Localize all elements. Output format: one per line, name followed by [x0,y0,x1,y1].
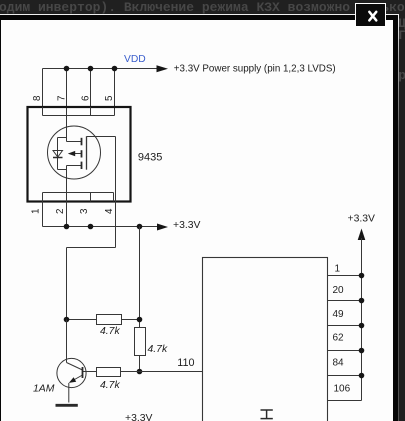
node A gate-collector junction [64,317,70,323]
wire right supply bus [361,238,363,401]
node bus pin84 [359,373,365,379]
power arrow +3.3V top [157,65,169,72]
wire pullup bus [139,227,141,328]
node bus pin1 [359,273,365,279]
node rail-pin5 junction [112,66,118,72]
svg-text:4: 4 [104,208,115,214]
node bus pin49 [359,323,365,329]
power arrow +3.3V right (up) [358,229,366,241]
wire pin 49 rung [328,325,362,327]
channel bar drain [81,138,83,146]
close button [355,3,386,27]
pin row top of U1 [43,115,115,117]
wire body diode branch [58,137,67,139]
svg-text:62: 62 [333,333,345,344]
wire source continues to bottom rail [66,166,68,227]
node rail-pin3 junction [88,224,94,230]
node rail-pin6 junction [88,66,94,72]
transistor U1 package outline (9435 P-MOSFET, SO-8) [28,107,131,202]
dimmed page text behind overlay (top band) [0,0,405,15]
svg-text:4.7k: 4.7k [100,326,120,337]
wire pin 62 rung [328,350,362,352]
wire +3.3V rail bottom [43,226,159,228]
channel bar body [81,150,83,157]
panel outline white seam right [398,15,399,421]
base bar of Q2 [82,367,84,378]
node C base junction [137,369,143,375]
svg-text:110: 110 [177,357,194,369]
svg-text:4.7k: 4.7k [148,344,168,355]
svg-text:+3.3V: +3.3V [173,220,201,231]
svg-text:4.7k: 4.7k [100,380,120,391]
svg-text:49: 49 [333,309,345,320]
gate bar of Q1 [86,136,88,169]
ground [56,404,78,407]
emitter arrow of Q2 [69,377,76,383]
node rail-pin2 junction [64,224,70,230]
node rail-bus junction [137,224,143,230]
svg-text:7: 7 [57,96,68,101]
transistor Q1 P-MOSFET symbol circle (inside U1) [48,126,101,179]
resistor R1 4.7k horizontal upper [97,315,122,325]
substrate arrow of Q1 [68,151,75,156]
panel outline white seam top [0,14,399,15]
svg-text:+3.3V Power supply (pin 1,2,3: +3.3V Power supply (pin 1,2,3 LVDS) [174,63,336,74]
panel border right [393,15,398,421]
power arrow +3.3V mid [157,224,168,231]
svg-text:6: 6 [81,95,92,101]
transistor Q2 NPN 1AM circle [57,358,86,387]
wire pin 84 rung [328,375,362,377]
node bus pin20 [359,298,365,304]
wire pin7/drain vertical [66,69,68,142]
wire R2 to node C [139,356,141,372]
wire pin8 to rail [42,69,44,108]
resistor R3 4.7k base [97,368,121,377]
wire pin 20 rung [328,300,362,302]
svg-text:+3.3V: +3.3V [125,413,153,421]
wire substrate stub [75,153,82,155]
IC U2 LVDS controller box [203,258,328,421]
wire gate to pin4 [87,136,116,138]
svg-text:9435: 9435 [138,152,162,164]
svg-text:1: 1 [335,263,341,274]
wire 110 net to IC [140,371,204,373]
diode D1 body diode [53,151,63,158]
node B bus junction [137,317,143,323]
panel border left [0,20,1,421]
wire node C to R3 [121,371,140,373]
wire pin 106 rung [328,400,362,402]
svg-text:2: 2 [55,209,66,214]
dimmed page text sliver right of panel [398,16,405,31]
wire emitter diagonal [71,375,83,382]
svg-text:3: 3 [79,208,90,214]
node rail-pin7 junction [64,66,70,72]
wire gate node branch [67,319,97,321]
wire pin1 to rail [42,202,44,227]
svg-text:VDD: VDD [124,54,146,65]
wire VDD rail top [43,68,158,70]
svg-text:1: 1 [31,209,42,214]
svg-text:8: 8 [32,95,43,101]
wire collector diagonal [66,320,68,363]
pin row bottom of U1 [43,192,114,194]
svg-text:20: 20 [333,285,345,296]
resistor R2 4.7k vertical [135,328,146,356]
panel border top [0,15,398,21]
symbol H inside U2 [261,410,273,419]
wire R3 to base [83,371,97,373]
svg-text:84: 84 [333,357,345,368]
channel bar source [81,162,83,169]
svg-text:5: 5 [104,95,115,101]
node bus pin62 [359,348,365,354]
wire drain stub [67,141,82,143]
wire source stub [67,165,82,167]
svg-text:+3.3V: +3.3V [348,214,376,225]
wire pin6 to IC [90,69,92,116]
wire pin5 to IC [114,69,116,116]
svg-text:106: 106 [334,384,351,395]
svg-text:1AM: 1AM [33,383,55,394]
wire pin 1 rung [328,275,362,277]
wire emitter down [68,383,70,403]
